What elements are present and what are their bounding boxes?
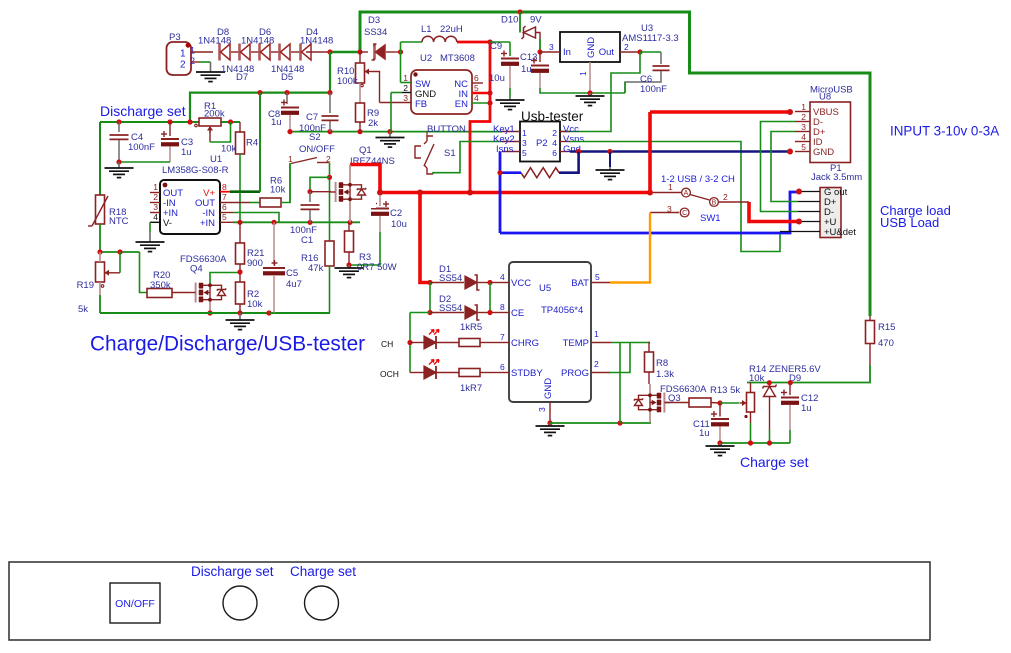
svg-text:C9: C9: [490, 41, 502, 52]
svg-text:GND: GND: [813, 147, 834, 158]
svg-text:FDS6630A: FDS6630A: [180, 254, 227, 265]
svg-text:10u: 10u: [489, 73, 505, 84]
svg-text:D3: D3: [368, 15, 380, 26]
svg-text:1u: 1u: [801, 403, 812, 414]
svg-text:R13 5k: R13 5k: [710, 385, 740, 396]
svg-text:1u: 1u: [521, 64, 532, 75]
svg-text:In: In: [563, 47, 571, 58]
svg-text:1: 1: [522, 128, 527, 138]
svg-text:4u7: 4u7: [286, 279, 302, 290]
svg-text:P2: P2: [536, 138, 548, 149]
svg-text:3: 3: [403, 93, 408, 103]
svg-text:Q4: Q4: [190, 264, 203, 275]
svg-text:STDBY: STDBY: [511, 368, 543, 379]
svg-text:Out: Out: [599, 47, 615, 58]
svg-text:5: 5: [595, 272, 600, 282]
svg-text:+U&det: +U&det: [824, 227, 856, 238]
svg-text:1.3k: 1.3k: [656, 369, 674, 380]
svg-text:U8: U8: [819, 92, 831, 103]
svg-text:C7: C7: [306, 112, 318, 123]
svg-text:350k: 350k: [150, 280, 171, 291]
svg-text:INPUT 3-10v 0-3A: INPUT 3-10v 0-3A: [890, 124, 999, 139]
svg-text:R8: R8: [656, 358, 668, 369]
svg-text:TEMP: TEMP: [563, 338, 589, 349]
svg-text:2k: 2k: [368, 118, 378, 129]
svg-text:1u: 1u: [271, 117, 282, 128]
svg-text:1: 1: [153, 182, 158, 192]
svg-text:L1: L1: [421, 24, 432, 35]
svg-text:1u: 1u: [181, 147, 192, 158]
svg-text:900: 900: [247, 258, 263, 269]
svg-text:1N4148: 1N4148: [300, 36, 333, 47]
svg-text:C2: C2: [390, 208, 402, 219]
svg-text:Charge set: Charge set: [740, 454, 809, 470]
svg-text:10k: 10k: [749, 373, 765, 384]
svg-text:NTC: NTC: [109, 216, 129, 227]
svg-text:22uH: 22uH: [440, 24, 463, 35]
svg-text:U2: U2: [420, 53, 432, 64]
svg-text:USB Load: USB Load: [880, 215, 939, 230]
svg-text:U5: U5: [539, 283, 551, 294]
svg-text:1u: 1u: [699, 428, 710, 439]
svg-text:A: A: [684, 190, 689, 197]
svg-text:4: 4: [474, 93, 479, 103]
svg-text:5k: 5k: [78, 304, 88, 315]
svg-text:1: 1: [190, 46, 195, 56]
svg-text:1N4148: 1N4148: [241, 36, 274, 47]
svg-text:D5: D5: [281, 72, 293, 83]
svg-text:GND: GND: [586, 37, 597, 58]
svg-text:47k: 47k: [308, 263, 324, 274]
svg-text:9V: 9V: [530, 15, 542, 26]
svg-text:TP4056*4: TP4056*4: [541, 305, 583, 316]
svg-text:CH: CH: [381, 339, 393, 349]
svg-text:+IN: +IN: [200, 218, 215, 229]
svg-text:3: 3: [801, 122, 806, 132]
svg-text:8: 8: [500, 302, 505, 312]
svg-text:5: 5: [522, 148, 527, 158]
svg-text:5: 5: [801, 142, 806, 152]
svg-text:Discharge set: Discharge set: [191, 564, 274, 579]
svg-text:6: 6: [222, 202, 227, 212]
svg-text:R4: R4: [246, 138, 258, 149]
svg-text:C5: C5: [286, 268, 298, 279]
svg-text:EN: EN: [455, 99, 468, 110]
svg-text:5: 5: [474, 83, 479, 93]
svg-text:OCH: OCH: [380, 369, 399, 379]
svg-text:2: 2: [594, 359, 599, 369]
svg-text:3: 3: [537, 407, 547, 412]
svg-text:1: 1: [801, 102, 806, 112]
svg-text:200k: 200k: [204, 109, 225, 120]
svg-text:LM358G-S08-R: LM358G-S08-R: [162, 165, 229, 176]
svg-text:2: 2: [552, 128, 557, 138]
svg-text:4: 4: [552, 138, 557, 148]
svg-text:SS54: SS54: [439, 303, 462, 314]
svg-text:10k: 10k: [247, 299, 263, 310]
svg-text:R19: R19: [77, 280, 94, 291]
svg-text:C1: C1: [301, 235, 313, 246]
svg-text:PROG: PROG: [561, 368, 589, 379]
svg-text:3: 3: [549, 42, 554, 52]
svg-text:VCC: VCC: [511, 278, 531, 289]
svg-text:CHRG: CHRG: [511, 338, 539, 349]
svg-text:4: 4: [153, 212, 158, 222]
svg-text:5: 5: [222, 212, 227, 222]
svg-text:GND: GND: [543, 378, 554, 399]
svg-text:Discharge set: Discharge set: [100, 103, 186, 119]
svg-text:100k: 100k: [337, 76, 358, 87]
svg-text:10u: 10u: [391, 219, 407, 230]
svg-text:V-: V-: [163, 218, 172, 229]
svg-text:1N4148: 1N4148: [198, 36, 231, 47]
svg-text:BAT: BAT: [571, 278, 589, 289]
svg-text:Q1: Q1: [359, 145, 372, 156]
svg-text:1kR5: 1kR5: [460, 322, 482, 333]
svg-text:BUTTON: BUTTON: [427, 124, 466, 135]
svg-text:D7: D7: [236, 72, 248, 83]
svg-text:1: 1: [668, 182, 673, 192]
svg-text:Charge set: Charge set: [290, 564, 356, 579]
svg-text:100nF: 100nF: [640, 84, 667, 95]
svg-text:6: 6: [552, 148, 557, 158]
svg-text:10k: 10k: [270, 185, 286, 196]
svg-text:1: 1: [594, 329, 599, 339]
svg-text:SS34: SS34: [364, 27, 387, 38]
svg-text:C: C: [682, 210, 687, 217]
svg-text:S1: S1: [444, 148, 456, 159]
svg-text:U1: U1: [210, 154, 222, 165]
svg-text:7: 7: [500, 332, 505, 342]
svg-text:CE: CE: [511, 308, 524, 319]
svg-text:470: 470: [878, 338, 894, 349]
svg-text:0R7 50W: 0R7 50W: [357, 262, 397, 273]
svg-text:2: 2: [153, 192, 158, 202]
svg-text:D10: D10: [501, 15, 518, 26]
svg-text:C13: C13: [520, 52, 537, 63]
svg-text:SW1: SW1: [700, 213, 721, 224]
svg-text:2: 2: [723, 192, 728, 202]
svg-text:2: 2: [180, 60, 186, 71]
svg-text:1: 1: [578, 71, 588, 76]
svg-text:3: 3: [522, 138, 527, 148]
svg-text:SS54: SS54: [439, 273, 462, 284]
svg-text:1: 1: [180, 49, 186, 60]
svg-text:MicroUSB: MicroUSB: [810, 85, 853, 96]
svg-text:6: 6: [474, 73, 479, 83]
svg-text:AMS1117-3.3: AMS1117-3.3: [622, 33, 679, 44]
svg-text:P3: P3: [169, 32, 181, 43]
svg-text:MT3608: MT3608: [440, 53, 475, 64]
svg-text:Jack 3.5mm: Jack 3.5mm: [811, 172, 862, 183]
svg-text:2: 2: [403, 83, 408, 93]
svg-text:4: 4: [500, 272, 505, 282]
svg-text:Charge/Discharge/USB-tester: Charge/Discharge/USB-tester: [90, 333, 365, 356]
svg-text:ON/OFF: ON/OFF: [115, 598, 155, 610]
svg-text:B: B: [712, 200, 717, 207]
svg-text:1: 1: [403, 73, 408, 83]
svg-text:S2: S2: [309, 132, 321, 143]
svg-text:8: 8: [222, 182, 227, 192]
svg-text:3: 3: [153, 202, 158, 212]
svg-text:10k: 10k: [221, 144, 237, 155]
svg-text:2: 2: [801, 112, 806, 122]
svg-text:FB: FB: [415, 99, 427, 110]
svg-text:4: 4: [801, 132, 806, 142]
svg-text:1kR7: 1kR7: [460, 383, 482, 394]
svg-text:2: 2: [190, 56, 195, 66]
svg-text:7: 7: [222, 192, 227, 202]
svg-text:R15: R15: [878, 322, 895, 333]
svg-text:100nF: 100nF: [128, 142, 155, 153]
svg-text:6: 6: [500, 362, 505, 372]
